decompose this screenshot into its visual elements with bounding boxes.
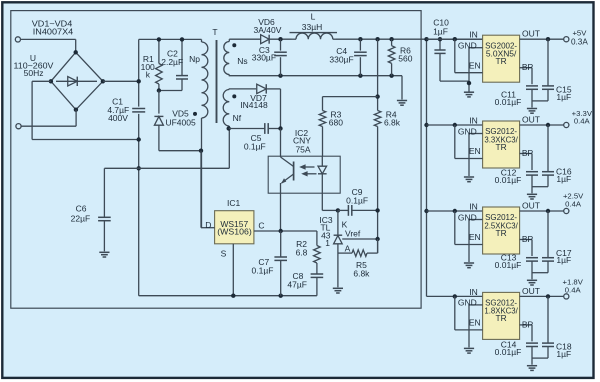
- node: [453, 37, 457, 41]
- wire: [181, 39, 183, 75]
- label C18: [556, 342, 572, 352]
- label 680: [329, 117, 343, 127]
- node: [375, 94, 379, 98]
- node: [424, 209, 428, 213]
- svg-text:IN4007X4: IN4007X4: [33, 27, 74, 37]
- label 33uH: [302, 22, 323, 32]
- shunt regulator IC3 TL431: [334, 235, 343, 244]
- node: [278, 74, 282, 78]
- label L: [311, 12, 316, 22]
- svg-text:TR: TR: [496, 142, 507, 152]
- svg-text:TR: TR: [496, 313, 507, 323]
- diode VD5: [154, 116, 163, 125]
- wire: [32, 81, 139, 139]
- label 43: [321, 230, 331, 240]
- svg-text:47µF: 47µF: [287, 279, 307, 289]
- ground: [99, 252, 109, 257]
- wire EN: [455, 39, 483, 72]
- node: [137, 79, 141, 83]
- resistor R6: [388, 39, 395, 75]
- wire: [159, 79, 182, 90]
- label 47uF: [287, 279, 307, 289]
- feedback winding Nf: [223, 89, 229, 129]
- capacitor C16: [532, 125, 554, 187]
- node: [546, 294, 550, 298]
- label R2: [296, 239, 307, 249]
- label TR: [496, 56, 507, 66]
- label 2.5XKC3/: [484, 220, 518, 230]
- svg-text:1µF: 1µF: [556, 255, 571, 265]
- node Nf phase dot: [232, 94, 236, 98]
- resistor R4: [374, 111, 381, 127]
- svg-text:k: k: [146, 70, 151, 80]
- svg-text:0.4A: 0.4A: [565, 286, 582, 295]
- svg-text:1µF: 1µF: [433, 27, 448, 37]
- wire: [103, 80, 139, 82]
- ground: [527, 109, 537, 114]
- wire: [139, 295, 317, 297]
- wire: [427, 295, 483, 297]
- label C13: [501, 253, 517, 263]
- label EN: [469, 60, 481, 70]
- label IN: [469, 287, 478, 297]
- wire BP: [520, 240, 532, 257]
- node: [375, 37, 379, 41]
- label C4: [336, 46, 347, 56]
- svg-text:BP: BP: [522, 319, 534, 329]
- label 3A/40V: [254, 25, 282, 35]
- controller IC1 WS157: [215, 211, 254, 244]
- label 0.01uF: [495, 347, 522, 357]
- label C14: [501, 339, 517, 349]
- label VD6: [258, 17, 275, 27]
- label IC2: [295, 128, 309, 138]
- label 6.8k: [384, 117, 401, 127]
- node input terminal 2: [16, 124, 21, 129]
- wire GND: [469, 305, 483, 348]
- svg-text:Np: Np: [189, 54, 200, 64]
- label 1: [325, 238, 330, 248]
- label 400V: [108, 113, 128, 123]
- svg-text:IC1: IC1: [227, 198, 241, 208]
- svg-text:0.4A: 0.4A: [574, 117, 591, 126]
- wire: [426, 39, 428, 296]
- primary winding Np: [202, 39, 208, 118]
- svg-text:S: S: [221, 249, 227, 259]
- label C11: [501, 90, 516, 100]
- svg-text:IN: IN: [469, 287, 478, 297]
- wire: [337, 244, 339, 287]
- led of IC2: [318, 156, 327, 193]
- resistor R2: [314, 231, 321, 263]
- wire C: [254, 230, 317, 232]
- node: [546, 209, 550, 213]
- wire: [201, 118, 203, 228]
- capacitor C1: [132, 109, 145, 112]
- wire: [229, 88, 256, 90]
- label IN: [469, 115, 478, 125]
- label R1: [143, 54, 154, 64]
- label 75A: [295, 144, 310, 154]
- node: [180, 37, 184, 41]
- wire EN: [455, 211, 483, 245]
- label S: [221, 249, 227, 259]
- svg-text:75A: 75A: [295, 144, 310, 154]
- label 1uF: [556, 92, 571, 102]
- light arrows of IC2: [299, 164, 316, 176]
- wire: [158, 84, 160, 91]
- node: [453, 294, 457, 298]
- node: [278, 126, 282, 130]
- svg-text:6.8: 6.8: [296, 247, 308, 257]
- svg-text:OUT: OUT: [522, 200, 540, 210]
- label OUT: [522, 200, 540, 210]
- wire: [21, 110, 76, 127]
- capacitor C9: [348, 205, 351, 216]
- node: [358, 37, 362, 41]
- label 2.2uF: [161, 57, 183, 67]
- node: [453, 123, 457, 127]
- svg-text:0.3A: 0.3A: [571, 38, 588, 47]
- transformer core: [216, 40, 218, 123]
- wire: [158, 91, 160, 114]
- svg-text:D: D: [205, 220, 211, 230]
- label CNY: [293, 135, 311, 145]
- label WS106: [217, 227, 252, 237]
- label R5: [356, 260, 367, 270]
- svg-text:50Hz: 50Hz: [24, 68, 44, 78]
- label TL: [320, 223, 330, 233]
- label BP: [522, 62, 534, 72]
- node: [358, 74, 362, 78]
- label 0.1uF: [244, 142, 266, 152]
- label WS157: [220, 219, 248, 229]
- label 0.1uF: [346, 196, 368, 206]
- ground: [464, 177, 474, 182]
- node: [137, 166, 141, 170]
- wire: [267, 89, 281, 127]
- ground: [464, 263, 474, 268]
- wire D: [201, 151, 215, 228]
- label C17: [556, 248, 572, 258]
- wire OUT: [520, 295, 564, 297]
- label Ns: [237, 56, 247, 66]
- label 100: [141, 62, 155, 72]
- node: [424, 123, 428, 127]
- resistor R3: [319, 111, 326, 127]
- svg-text:560: 560: [398, 54, 412, 64]
- svg-text:TR: TR: [496, 56, 507, 66]
- svg-text:GND: GND: [458, 126, 477, 136]
- wire: [367, 239, 378, 253]
- label 330uF: [329, 54, 353, 64]
- wire: [377, 39, 379, 110]
- svg-text:C: C: [258, 221, 264, 231]
- wire: [352, 209, 378, 211]
- wire: [337, 210, 339, 235]
- node: [375, 237, 379, 241]
- wire Vref: [342, 238, 377, 240]
- wire: [21, 38, 76, 40]
- label 6.8k: [353, 268, 370, 278]
- wire: [427, 38, 483, 40]
- label GND: [458, 212, 477, 222]
- svg-text:IN: IN: [469, 30, 478, 40]
- label IN4148: [240, 100, 268, 110]
- capacitor C11: [526, 86, 538, 108]
- node: [137, 137, 141, 141]
- capacitor C7: [274, 231, 287, 296]
- svg-text:0.1µF: 0.1µF: [252, 265, 274, 275]
- ground: [464, 92, 474, 97]
- label k: [146, 70, 151, 80]
- capacitor C13: [526, 258, 538, 280]
- label IC1: [227, 198, 241, 208]
- svg-text:0.01µF: 0.01µF: [495, 175, 522, 185]
- optocoupler IC2 box: [268, 156, 340, 193]
- regulator U4 SG2012: [483, 292, 520, 339]
- label +2.5V: [563, 191, 584, 200]
- svg-text:IN: IN: [469, 115, 478, 125]
- label IC3: [319, 215, 333, 225]
- label VD7: [250, 93, 267, 103]
- svg-text:0.01µF: 0.01µF: [495, 97, 522, 107]
- node: [375, 208, 379, 212]
- svg-text:BP: BP: [522, 234, 534, 244]
- svg-text:0.1µF: 0.1µF: [244, 142, 266, 152]
- label C5: [251, 133, 262, 143]
- wire: [269, 38, 291, 40]
- label C6: [76, 204, 87, 214]
- wire: [229, 128, 265, 130]
- label 0.4A: [565, 199, 582, 208]
- svg-text:0.01µF: 0.01µF: [495, 260, 522, 270]
- label GND: [458, 126, 477, 136]
- label OUT: [522, 29, 540, 39]
- label 5.0XN5/: [486, 49, 517, 59]
- svg-text:C6: C6: [76, 204, 87, 214]
- label 0.1uF: [252, 265, 274, 275]
- label 0.4A: [565, 286, 582, 295]
- label C8: [292, 271, 303, 281]
- label SG2002-: [485, 40, 517, 50]
- label BP: [522, 148, 534, 158]
- svg-text:1µF: 1µF: [556, 92, 571, 102]
- label TR: [496, 313, 507, 323]
- schematic inner frame: [11, 11, 421, 309]
- label C7: [258, 257, 269, 267]
- wire: [427, 210, 483, 212]
- wire: [280, 129, 282, 158]
- label +3.3V: [572, 109, 593, 118]
- label T: [212, 27, 217, 37]
- ground: [527, 366, 537, 371]
- svg-text:1: 1: [325, 238, 330, 248]
- label +1.8V: [563, 278, 584, 287]
- capacitor C15: [532, 39, 554, 101]
- label U: [30, 53, 36, 63]
- node: [546, 123, 550, 127]
- wire GND: [469, 220, 483, 263]
- label K: [342, 219, 348, 229]
- wire: [104, 167, 229, 169]
- wire EN: [455, 125, 483, 159]
- label C12: [501, 168, 517, 178]
- resistor R5: [352, 250, 367, 257]
- label OUT: [522, 114, 540, 124]
- wire GND: [469, 134, 483, 177]
- label BP: [522, 234, 534, 244]
- label 0.01uF: [495, 97, 522, 107]
- wire OUT: [520, 124, 564, 126]
- label 560: [398, 54, 412, 64]
- svg-text:(WS106): (WS106): [217, 227, 252, 237]
- diode VD7: [257, 84, 267, 93]
- wire BP: [520, 68, 532, 85]
- node output terminal +1.8V: [564, 294, 569, 299]
- svg-text:1µF: 1µF: [556, 174, 571, 184]
- wire: [377, 127, 379, 254]
- label +5V: [572, 28, 587, 37]
- node: [453, 209, 457, 213]
- wire: [158, 39, 160, 63]
- svg-text:EN: EN: [469, 318, 481, 328]
- svg-text:0.4A: 0.4A: [565, 199, 582, 208]
- node: [227, 126, 231, 130]
- node: [546, 37, 550, 41]
- svg-text:OUT: OUT: [522, 114, 540, 124]
- label 1uF: [556, 349, 571, 359]
- capacitor C5: [265, 123, 268, 134]
- svg-text:0.1µF: 0.1µF: [346, 196, 368, 206]
- svg-text:UF4005: UF4005: [165, 117, 196, 127]
- wire: [228, 129, 230, 169]
- capacitor C12: [526, 172, 538, 194]
- wire OUT: [520, 38, 564, 40]
- label 1.8XKC3/: [484, 306, 518, 316]
- label Vref: [345, 228, 361, 238]
- capacitor C4: [354, 39, 367, 75]
- wire: [139, 38, 202, 40]
- label C3: [259, 45, 270, 55]
- svg-text:IN: IN: [469, 201, 478, 211]
- label 50Hz: [24, 68, 44, 78]
- svg-text:1µF: 1µF: [556, 349, 571, 359]
- label R4: [386, 109, 397, 119]
- label Nf: [233, 113, 242, 123]
- label 1uF: [556, 174, 571, 184]
- diode VD6: [261, 35, 270, 44]
- node input terminal 1: [15, 37, 20, 42]
- label 110~260V: [14, 61, 54, 71]
- svg-text:EN: EN: [469, 146, 481, 156]
- wire: [75, 39, 77, 52]
- capacitor C14: [526, 343, 538, 365]
- capacitor C18: [532, 296, 554, 358]
- svg-text:22µF: 22µF: [71, 214, 91, 224]
- capacitor C3: [274, 39, 287, 75]
- svg-text:OUT: OUT: [522, 286, 540, 296]
- svg-text:330µF: 330µF: [329, 54, 353, 64]
- wire: [268, 128, 280, 130]
- label 4.7uF: [107, 105, 129, 115]
- inductor L: [290, 33, 338, 40]
- label EN: [469, 232, 481, 242]
- label 6.8: [296, 247, 308, 257]
- label TR: [496, 142, 507, 152]
- label 22uF: [71, 214, 91, 224]
- capacitor C6: [98, 168, 111, 251]
- svg-text:400V: 400V: [108, 113, 128, 123]
- svg-text:OUT: OUT: [522, 29, 540, 39]
- label 0.4A: [574, 117, 591, 126]
- label 0.3A: [571, 38, 588, 47]
- node: [438, 37, 442, 41]
- node: [336, 208, 340, 212]
- node: [157, 88, 161, 92]
- label SG2012-: [485, 298, 517, 308]
- node: [279, 229, 283, 233]
- svg-text:Nf: Nf: [233, 113, 242, 123]
- ground: [527, 280, 537, 285]
- svg-text:A: A: [345, 244, 351, 254]
- label SG2012-: [485, 212, 517, 222]
- label 330uF: [252, 53, 276, 63]
- label C1: [112, 96, 123, 106]
- svg-text:EN: EN: [469, 60, 481, 70]
- resistor R1: [156, 64, 163, 85]
- node output terminal +2.5V: [564, 208, 569, 213]
- svg-text:6.8k: 6.8k: [384, 117, 401, 127]
- label IN: [469, 201, 478, 211]
- label A: [345, 244, 351, 254]
- secondary winding Ns: [224, 39, 230, 75]
- wire: [322, 127, 324, 157]
- node Ns phase dot: [232, 43, 236, 47]
- wire: [229, 76, 402, 100]
- svg-text:3A/40V: 3A/40V: [254, 25, 282, 35]
- svg-text:Vref: Vref: [345, 228, 361, 238]
- wire: [338, 209, 349, 211]
- svg-text:L: L: [311, 12, 316, 22]
- svg-text:+5V: +5V: [572, 28, 587, 37]
- label R6: [400, 46, 411, 56]
- label C16: [556, 167, 572, 177]
- svg-text:TR: TR: [496, 228, 507, 238]
- label SG2012-: [485, 126, 517, 136]
- capacitor C10: [434, 39, 469, 81]
- wire: [280, 183, 282, 231]
- label 1uF: [556, 255, 571, 265]
- label GND: [458, 41, 477, 51]
- svg-text:0.01µF: 0.01µF: [495, 347, 522, 357]
- label GND: [458, 298, 477, 308]
- wire: [322, 193, 338, 210]
- node: [389, 37, 393, 41]
- wire S: [232, 244, 234, 296]
- label EN: [469, 318, 481, 328]
- svg-text:BP: BP: [522, 62, 534, 72]
- ground: [464, 348, 474, 353]
- capacitor C17: [532, 211, 554, 273]
- label IN4007X4: [33, 27, 74, 37]
- label IN: [469, 30, 478, 40]
- svg-text:6.8k: 6.8k: [353, 268, 370, 278]
- node: [199, 149, 203, 153]
- label C2: [167, 49, 178, 59]
- label OUT: [522, 286, 540, 296]
- svg-text:IN4148: IN4148: [240, 100, 268, 110]
